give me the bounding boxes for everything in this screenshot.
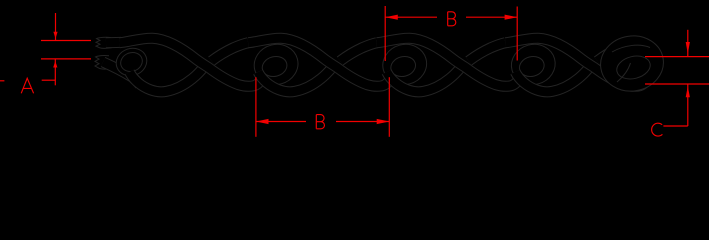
- chain link 2 (twisted double-loop link): [248, 38, 391, 92]
- chain: left cut end top stub: [96, 37, 121, 48]
- dimension C: bottom extension line: [645, 83, 709, 85]
- label C: [652, 123, 663, 136]
- chain link 4 (twisted double-loop link): [505, 38, 648, 92]
- dimension B top: left extension line: [384, 6, 386, 61]
- junction eye 3 (oval ring): [378, 39, 431, 89]
- junction eye 2 (oval ring): [250, 39, 303, 89]
- label B bottom: [316, 115, 324, 129]
- dimension B bottom: left extension line: [255, 77, 257, 137]
- junction eye 4 (oval ring): [507, 39, 560, 89]
- dimension A: top extension line: [41, 40, 91, 42]
- chain: left cut end bottom stub: [95, 55, 140, 85]
- dimension B top: dimension line: [385, 16, 517, 18]
- dimension C: top extension line: [645, 56, 709, 58]
- dimension A: bottom extension line: [41, 58, 91, 60]
- dimension C: leader: [663, 125, 687, 127]
- chain link 1 (twisted double-loop link): [120, 38, 263, 92]
- left edge red tick: [0, 80, 4, 82]
- chain link 5 (end loop ring): [597, 31, 668, 95]
- dimension A: bottom arrow: [54, 59, 56, 85]
- dimension B top: arrows: [385, 15, 517, 20]
- dimension B bottom: right extension line: [388, 77, 390, 137]
- junction eye 1 (face-on oval): [112, 44, 150, 80]
- dimension B bottom: arrows: [256, 119, 389, 124]
- dimension A: leader: [42, 79, 56, 81]
- dimension B top: right extension line: [516, 7, 518, 61]
- dimension C: bottom arrow: [687, 84, 689, 126]
- dimension C: top arrow: [687, 30, 689, 57]
- dimension A: top arrow: [55, 13, 57, 41]
- label A: [21, 78, 33, 93]
- chain link 3 (twisted double-loop link): [377, 38, 520, 92]
- label B top: [448, 12, 456, 26]
- dimension B bottom: dimension line: [256, 121, 389, 123]
